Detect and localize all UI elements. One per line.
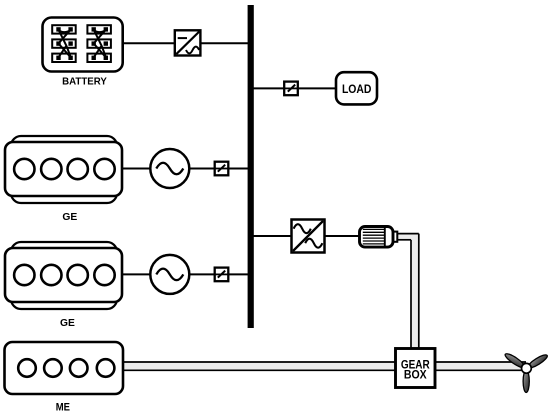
engine GE2: [5, 242, 122, 309]
generator G2: [150, 255, 189, 294]
wire generator G1 to breaker: [189, 168, 216, 170]
wire frequency converter to motor: [324, 235, 360, 237]
breaker GE1: [215, 162, 229, 176]
svg-text:BATTERY: BATTERY: [62, 77, 107, 88]
converter DC/AC battery: [175, 30, 201, 55]
load LOAD: [336, 72, 377, 104]
shaft motor to gearbox (L-shaped): [397, 234, 419, 350]
wire converter to bus: [201, 42, 249, 44]
wire generator G2 to breaker: [189, 273, 216, 275]
svg-text:GE: GE: [60, 318, 75, 329]
gearbox GEAR BOX: [396, 349, 436, 388]
generator G1: [150, 149, 189, 188]
engine GE1: [5, 136, 122, 203]
shaft gearbox to propeller: [435, 362, 526, 370]
frequency converter AC/AC: [292, 220, 325, 253]
engine ME: [5, 342, 124, 394]
battery BATTERY: [43, 18, 123, 72]
svg-text:BOX: BOX: [404, 369, 427, 382]
motor M: [360, 227, 398, 248]
breaker GE2: [215, 268, 229, 282]
wire GE1 breaker to bus: [228, 168, 249, 170]
wire GE1 engine to generator G1: [121, 168, 151, 170]
wire GE2 breaker to bus: [228, 273, 249, 275]
svg-text:GE: GE: [62, 212, 77, 223]
bus bar main: [248, 5, 254, 328]
wire load breaker to LOAD: [297, 87, 337, 89]
svg-text:ME: ME: [56, 401, 70, 413]
wire GE2 engine to generator G2: [121, 273, 151, 275]
breaker load feeder: [284, 82, 298, 96]
shaft ME to gearbox: [123, 362, 396, 370]
svg-text:LOAD: LOAD: [342, 82, 372, 96]
propeller: [504, 352, 549, 393]
wire bus to load breaker: [253, 87, 285, 89]
wire bus to frequency converter: [253, 235, 292, 237]
wire battery to converter: [123, 42, 177, 44]
